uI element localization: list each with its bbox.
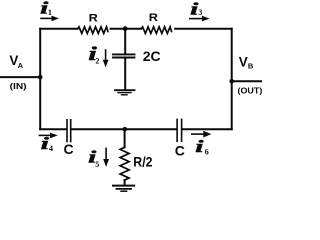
svg-text:B: B [248, 62, 254, 71]
svg-text:A: A [18, 61, 24, 70]
svg-text:6: 6 [205, 147, 209, 156]
svg-text:R/2: R/2 [133, 153, 152, 169]
svg-text:C: C [175, 142, 185, 158]
svg-text:(IN): (IN) [10, 81, 27, 91]
svg-text:(OUT): (OUT) [238, 85, 263, 95]
svg-text:2C: 2C [143, 48, 161, 64]
svg-text:C: C [64, 141, 74, 157]
svg-text:4: 4 [49, 144, 53, 153]
svg-text:R: R [89, 13, 98, 25]
svg-text:2: 2 [95, 57, 99, 66]
svg-text:V: V [239, 54, 248, 69]
svg-text:1: 1 [48, 8, 52, 17]
svg-text:i: i [195, 137, 204, 156]
svg-text:5: 5 [95, 160, 99, 169]
svg-text:3: 3 [198, 8, 202, 17]
svg-text:R: R [149, 12, 158, 24]
